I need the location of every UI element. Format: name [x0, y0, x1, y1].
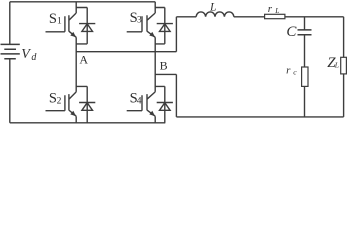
resistor rc	[302, 67, 308, 86]
svg-text:r: r	[268, 3, 273, 15]
diode D1 (antiparallel)	[76, 8, 95, 44]
svg-text:c: c	[293, 68, 297, 77]
svg-text:S: S	[49, 11, 57, 27]
capacitor C	[298, 30, 312, 35]
wire bridge leg 1 (S1/S2)	[75, 2, 77, 123]
wire bridge leg 2 (S3/S4)	[154, 2, 156, 123]
wire left lead from rail to battery	[9, 2, 11, 45]
resistor rL	[265, 14, 285, 18]
diode D4 (antiparallel)	[155, 86, 173, 122]
load ZL	[341, 57, 347, 74]
transistor S4	[127, 92, 156, 116]
transistor S3	[127, 13, 156, 37]
wire ZL top lead	[343, 17, 345, 58]
svg-text:L: L	[334, 60, 339, 69]
svg-text:V: V	[21, 47, 31, 62]
wire capacitor tap	[304, 17, 306, 30]
wire left lead battery to bottom rail	[9, 59, 11, 123]
transistor S1	[46, 13, 77, 37]
svg-text:A: A	[79, 52, 88, 66]
diode D3 (antiparallel)	[155, 8, 173, 44]
node B wire	[155, 73, 176, 75]
svg-text:r: r	[286, 64, 291, 76]
wire bottom DC rail	[10, 122, 166, 124]
diode D2 (antiparallel)	[76, 86, 95, 122]
wire output top rail (left segment)	[176, 16, 196, 18]
wire C to rc	[304, 35, 306, 67]
transistor S2	[46, 92, 77, 116]
inductor L	[196, 12, 234, 17]
wire output top rail (right segment)	[234, 16, 344, 18]
battery Vd	[1, 44, 20, 58]
wire output return (bottom) rail	[176, 116, 343, 118]
svg-text:L: L	[274, 6, 279, 15]
svg-text:3: 3	[137, 16, 142, 26]
wire rc to return rail	[304, 86, 306, 117]
wire ZL bottom lead	[343, 74, 345, 117]
wire node A riser to filter	[175, 17, 177, 52]
node A wire	[76, 51, 176, 53]
wire top DC rail	[10, 1, 155, 3]
svg-text:C: C	[286, 24, 297, 40]
svg-text:d: d	[31, 52, 37, 63]
svg-text:1: 1	[57, 17, 62, 27]
svg-text:L: L	[209, 1, 216, 13]
svg-text:B: B	[160, 59, 168, 73]
svg-text:2: 2	[57, 96, 62, 106]
svg-text:4: 4	[137, 96, 142, 106]
wire node B drop to return rail	[175, 74, 177, 117]
